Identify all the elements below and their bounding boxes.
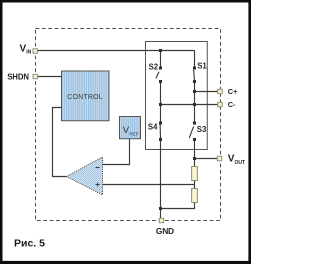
svg-text:S3: S3 <box>197 125 207 134</box>
wire resistor bottom to ground rail <box>161 203 195 209</box>
junction GND wire / left rail <box>159 207 162 210</box>
resistor R2 <box>192 189 198 203</box>
resistor R1 <box>192 167 198 181</box>
junction C- / right rail <box>193 103 196 106</box>
junction C+ / right rail <box>193 90 196 93</box>
wire left rail upper segment <box>160 51 162 69</box>
wire feedback divider to op-amp plus input <box>103 184 195 186</box>
switch S3 <box>189 122 207 142</box>
wire Vref to op-amp minus input <box>103 139 130 165</box>
wire SHDN to control <box>38 76 62 78</box>
wire left rail middle segment S2 bottom to S4 top <box>160 82 162 124</box>
switch S4 <box>148 122 162 142</box>
pin C+ <box>218 87 238 96</box>
switch network box <box>146 42 208 150</box>
pin Vin <box>20 44 38 56</box>
svg-text:S4: S4 <box>148 122 158 131</box>
pin SHDN <box>7 73 37 82</box>
wire right rail middle segment S1 bottom to S3 top <box>194 82 196 124</box>
junction Vin / left rail <box>159 49 162 52</box>
svg-text:REF: REF <box>129 131 138 136</box>
svg-text:SHDN: SHDN <box>7 73 29 82</box>
svg-text:C-: C- <box>228 100 236 109</box>
svg-text:CONTROL: CONTROL <box>67 94 102 101</box>
switch S2 <box>149 62 162 83</box>
wire right rail upper segment <box>194 51 196 69</box>
Vref block <box>120 117 141 139</box>
wire left rail lower segment S4 bottom to GND <box>160 140 162 219</box>
svg-text:S2: S2 <box>149 62 159 71</box>
wire C+ to pin <box>195 91 218 93</box>
wire C- to pin <box>161 104 218 106</box>
pin Vout <box>217 154 245 166</box>
svg-text:C+: C+ <box>228 87 238 96</box>
switch S1 <box>193 62 207 83</box>
junction C- / left rail <box>159 103 162 106</box>
wire op-amp output to control <box>53 108 67 177</box>
IC boundary dashed box <box>36 29 221 221</box>
junction Vout / right rail <box>193 157 196 160</box>
svg-text:IN: IN <box>26 50 31 56</box>
control block <box>62 71 110 121</box>
svg-text:GND: GND <box>156 226 174 236</box>
wire Vout to pin <box>195 158 218 160</box>
pin GND <box>156 218 174 236</box>
svg-text:Рис. 5: Рис. 5 <box>14 238 45 250</box>
pin C- <box>218 100 236 109</box>
svg-text:OUT: OUT <box>235 160 246 166</box>
svg-text:S1: S1 <box>197 62 207 71</box>
op-amp comparator <box>67 157 103 195</box>
wire right rail lower segment S3 bottom to resistors <box>194 140 196 203</box>
outer frame <box>0 0 251 264</box>
wire Vin to switch rails <box>38 50 195 52</box>
